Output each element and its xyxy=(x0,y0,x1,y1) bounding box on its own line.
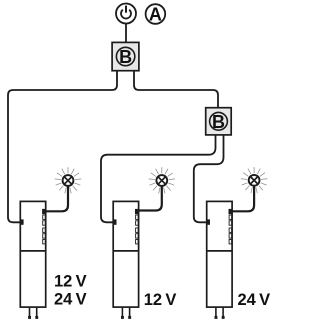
wire from power symbol to dimmer B1 xyxy=(125,24,127,43)
svg-text:B: B xyxy=(212,112,225,132)
PSU1 housing divider xyxy=(20,250,45,252)
lamp bulb circle with cross xyxy=(156,175,167,186)
wire B2 left pin to PSU2 input xyxy=(101,135,216,222)
PSU3 lamp output terminal xyxy=(229,209,232,214)
dimmer B2 xyxy=(206,108,232,135)
dimmer B1 xyxy=(112,42,139,70)
power supply unit PSU3 xyxy=(207,201,232,319)
wire lamp E2 to PSU2 xyxy=(138,186,161,210)
PSU1 body xyxy=(20,201,45,307)
light rays xyxy=(55,167,81,193)
PSU3 mains input terminal xyxy=(207,219,210,224)
PSU1 mains input terminal xyxy=(21,219,24,224)
PSU1 lamp output terminal xyxy=(42,209,45,214)
wire lamp E3 to PSU3 xyxy=(232,186,255,211)
lamp E3 xyxy=(241,167,267,193)
light rays xyxy=(149,167,175,193)
PSU3 bottom pins xyxy=(215,307,217,318)
wire B1 right pin to dimmer B2 xyxy=(134,71,218,108)
svg-text:12 V: 12 V xyxy=(54,273,87,291)
svg-text:24 V: 24 V xyxy=(54,291,87,309)
PSU2 terminal block contacts xyxy=(136,215,139,244)
svg-text:B: B xyxy=(119,47,132,67)
PSU3 body xyxy=(207,201,232,307)
wire B1 left pin to PSU1 input xyxy=(8,71,117,223)
svg-text:24 V: 24 V xyxy=(238,291,271,309)
PSU2 body xyxy=(113,201,138,307)
PSU2 lamp output terminal xyxy=(135,209,138,214)
light rays xyxy=(241,167,267,193)
wire lamp E1 to PSU1 xyxy=(46,186,69,211)
PSU1 terminal block contacts xyxy=(43,215,46,244)
power supply unit PSU2 xyxy=(113,201,138,319)
label A xyxy=(146,4,166,24)
lamp bulb circle with cross xyxy=(249,175,260,186)
PSU2 mains input terminal xyxy=(114,219,117,224)
power supply unit PSU1 xyxy=(20,201,45,319)
wire B2 right pin to PSU3 input xyxy=(194,135,224,222)
power symbol xyxy=(116,4,136,24)
lamp E1 xyxy=(55,167,81,193)
PSU3 housing divider xyxy=(207,250,232,252)
svg-text:12 V: 12 V xyxy=(144,291,177,309)
PSU1 bottom pins xyxy=(29,307,31,318)
svg-text:A: A xyxy=(149,5,162,25)
PSU2 housing divider xyxy=(113,250,138,252)
lamp E2 xyxy=(149,167,175,193)
PSU2 bottom pins xyxy=(121,307,123,318)
lamp bulb circle with cross xyxy=(63,175,74,186)
PSU3 terminal block contacts xyxy=(229,215,232,244)
